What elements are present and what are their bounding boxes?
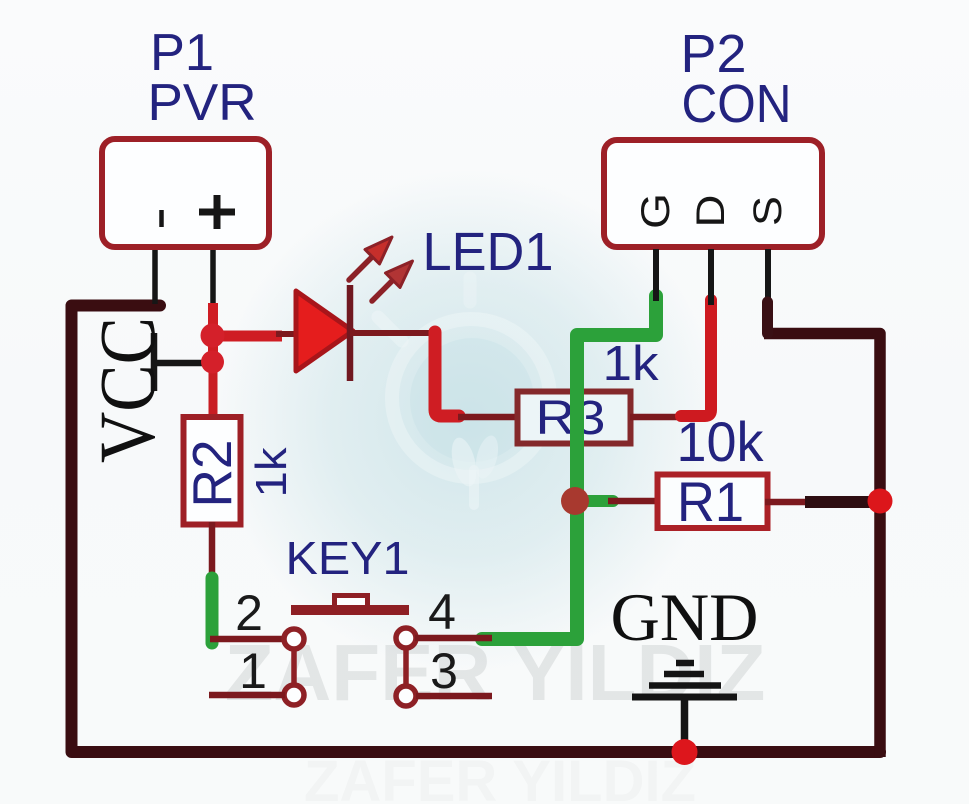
node: junction dot upper at plus/LED: [201, 324, 225, 348]
wire: P2 pin S black: [765, 249, 771, 300]
wire: thick red down to R3 left: [435, 332, 459, 416]
svg-text:CON: CON: [682, 74, 792, 134]
LED1 arrow 1: [349, 237, 392, 280]
wire: R1 left lead: [608, 498, 656, 505]
wire: P2 pin G black: [653, 249, 659, 301]
connector P1 body: [102, 139, 269, 247]
wire: R3 right lead: [630, 414, 695, 421]
svg-text:1k: 1k: [603, 337, 660, 391]
wire: KEY1 pin 1 stub: [209, 692, 285, 699]
wire: cathode to corner dark red: [350, 330, 437, 336]
power symbol VCC bar: [151, 333, 158, 391]
KEY1 pole link right: [403, 647, 409, 687]
node: junction dot lower at VCC/R2: [201, 351, 224, 374]
wire: R2 bottom lead dark red: [209, 522, 216, 581]
KEY1 actuator bar: [291, 605, 409, 615]
wire: green segment below R2: [206, 578, 219, 643]
wire: P2 pin D black: [708, 249, 714, 305]
wire: R3 left lead: [458, 414, 516, 421]
KEY1 pin 1 circle: [284, 685, 304, 705]
wire: thick dark segment to outer net: [805, 496, 870, 508]
connector P1 pin label plus: [199, 195, 235, 229]
svg-text:4: 4: [428, 584, 456, 640]
LED1 arrow 2: [372, 261, 413, 301]
svg-text:D: D: [689, 195, 733, 228]
wire: KEY1 pin 3 stub: [416, 693, 492, 700]
svg-text:G: G: [634, 193, 678, 229]
connector P1 pin label minus: [159, 210, 164, 227]
wire: red from node to LED anode: [214, 331, 282, 342]
LED1 triangle: [296, 291, 353, 371]
resistor R2 top lead: [209, 368, 218, 418]
node: junction dot on right outer net: [868, 489, 893, 514]
svg-text:LED1: LED1: [423, 222, 554, 282]
svg-text:S: S: [746, 196, 790, 226]
svg-text:R1: R1: [677, 470, 744, 533]
KEY1 pin 3 circle: [396, 686, 416, 706]
ground symbol GND: [632, 663, 737, 748]
svg-text:1: 1: [239, 643, 267, 699]
wire: thick outer net right: [764, 334, 880, 758]
resistor R1 body: [658, 475, 768, 529]
node: junction dot at ground on bottom net: [672, 739, 698, 765]
LED1 cathode bar: [347, 285, 354, 381]
wire: red from plus pin to LED node: [208, 303, 218, 372]
wire: VCC stub (black): [152, 360, 211, 367]
wire: KEY1 pin 4 stub: [415, 635, 492, 642]
svg-text:KEY1: KEY1: [286, 532, 410, 584]
wire: P1 plus pin (black): [210, 249, 216, 306]
KEY1 actuator bump: [335, 596, 368, 608]
resistor R2 body: [184, 417, 241, 525]
svg-text:GND: GND: [611, 579, 759, 655]
connector P2 body: [604, 140, 822, 247]
KEY1 pole link left: [291, 648, 297, 686]
wire: green stub at R1: [582, 495, 613, 507]
KEY1 pin 4 circle: [396, 628, 416, 648]
wire: dark red to KEY1 pin 2: [210, 636, 285, 643]
svg-text:VCC: VCC: [85, 317, 172, 463]
svg-text:2: 2: [235, 585, 263, 641]
wire: R1 right lead: [765, 499, 812, 506]
svg-text:1k: 1k: [247, 446, 296, 497]
svg-text:10k: 10k: [677, 410, 765, 473]
KEY1 pin 2 circle: [284, 629, 304, 649]
wire: thick outer net left+bottom: [72, 306, 881, 753]
wire: P2 pin S maroon down to outer net: [762, 302, 773, 334]
svg-text:R2: R2: [181, 440, 243, 508]
watermark bulb glow (decorative): [378, 278, 550, 505]
node: junction dot on green net: [561, 487, 589, 515]
wire: red from P2 pin D down to R3: [681, 300, 711, 416]
svg-text:PVR: PVR: [148, 74, 257, 132]
LED1 anode lead: [276, 331, 298, 337]
wire: green net G (P2 pin G to KEY1 pin 4): [482, 296, 656, 639]
resistor R3 body: [518, 392, 631, 444]
svg-text:3: 3: [430, 643, 458, 699]
wire: P1 minus pin (black): [152, 249, 158, 304]
